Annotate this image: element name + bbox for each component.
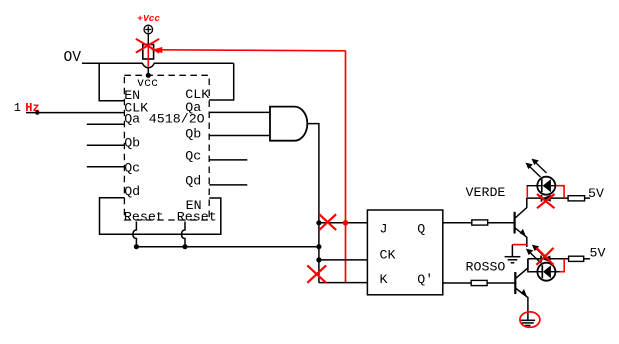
transistor Q1 (upper NPN) (515, 198, 527, 247)
junction dot right reset (182, 244, 187, 249)
wire to CK pin (319, 259, 368, 261)
svg-text:1: 1 (14, 101, 21, 115)
resistor R3 (base, lower) (471, 280, 487, 285)
wire emitter to ground (upper) (526, 245, 528, 247)
wire resistor to 5V (585, 197, 590, 199)
red junction dot Vcc to J (343, 220, 349, 226)
LED D1 (VERDE) (537, 177, 555, 195)
AND gate U2 (270, 107, 307, 141)
red wire emitter to ground (512, 244, 526, 246)
junction dot on vcc pin (146, 73, 151, 78)
diode D4 on collector wire (crossed out) (541, 256, 550, 263)
wire 1Hz input to CLK (26, 112, 124, 114)
wire Q' output to base resistor R3 (443, 282, 516, 284)
resistor R4 (lower collector to 5V) (569, 256, 584, 261)
junction dot on 1Hz wire (35, 110, 39, 114)
svg-text:ROSSO: ROSSO (466, 260, 506, 275)
stub Qd (right) (209, 184, 247, 186)
svg-text:Qb: Qb (124, 135, 140, 150)
diode D3 on collector wire (crossed out) (542, 195, 551, 202)
stub Qc (left) (87, 166, 125, 168)
junction dot CK (316, 257, 321, 262)
svg-text:Q': Q' (417, 272, 433, 287)
ground (lower emitter) (521, 320, 535, 325)
wire 0V rail drop to CLK pin (right) (209, 63, 234, 100)
svg-text:Qa: Qa (185, 100, 201, 115)
red circle annotation around ground (520, 312, 540, 327)
LED D1 emission arrows (526, 159, 547, 177)
wire AND output down to JK inputs (307, 124, 319, 283)
red arrow line to the right (to Vcc net) (151, 47, 346, 53)
LED branch wires (lower) (528, 259, 564, 272)
transistor Q2 (lower NPN) (515, 259, 528, 321)
wire right Reset drop with hop (182, 222, 186, 247)
svg-text:CK: CK (380, 247, 396, 262)
junction dot reset rail (316, 244, 321, 249)
power supply terminal circle (144, 25, 153, 34)
svg-text:Qb: Qb (185, 127, 201, 142)
LED D2 (ROSSO) (537, 263, 555, 281)
wire to K pin (319, 282, 368, 284)
svg-text:Reset: Reset (124, 209, 164, 224)
wire Qd(left) to bottom loop (100, 198, 221, 234)
svg-text:Qa: Qa (124, 112, 140, 127)
red cross-out X over crossed diode (upper) (537, 194, 555, 208)
wire resistor to 5V (lower) (584, 258, 590, 260)
red cross-out X near K (307, 265, 326, 282)
0V rail wire with hop over fuse wire (82, 63, 234, 67)
svg-text:Q: Q (417, 221, 425, 236)
red cross-out X near J (319, 214, 336, 230)
svg-text:+Vcc: +Vcc (137, 13, 160, 24)
wire Qa to AND input (209, 111, 270, 113)
wire 0V rail drop to EN pin (left) (99, 63, 124, 100)
svg-text:VERDE: VERDE (466, 185, 506, 200)
svg-text:K: K (380, 272, 388, 287)
wire left Reset drop with hop (133, 222, 137, 247)
stub Qb (left) (87, 144, 125, 146)
wire collector rail (upper LED row) (527, 197, 568, 199)
svg-text:Qd: Qd (124, 184, 140, 199)
resistor R1 (base, upper) (472, 220, 488, 225)
wire Q output to base resistor R1 (443, 222, 515, 224)
red cross-out X over fuse (136, 39, 159, 53)
svg-text:OV: OV (64, 50, 82, 66)
wire hop bottom to IC vcc pin (147, 68, 149, 76)
wire to J pin (319, 222, 368, 224)
fuse F1 (vertical rectangle) (143, 45, 154, 60)
red LED branch wires (upper) (527, 186, 565, 198)
wire Qb to AND input (209, 135, 270, 137)
JK flip-flop U3 box (367, 210, 442, 295)
svg-text:Qd: Qd (185, 174, 201, 189)
stub Qa (left) (87, 123, 125, 125)
reset rail wire to JK column (136, 246, 319, 248)
svg-text:5V: 5V (588, 186, 604, 201)
wire from terminal to fuse (147, 34, 149, 45)
red wire down through fuse to 0V rail (147, 45, 149, 67)
red vertical Vcc net wire down to JK inputs (345, 51, 347, 284)
svg-text:J: J (380, 221, 388, 236)
svg-text:5V: 5V (590, 245, 606, 260)
junction dot left reset (134, 244, 139, 249)
wire collector rail (lower LED row) (528, 258, 569, 260)
svg-text:Qc: Qc (124, 161, 140, 176)
LED D2 emission arrows (526, 245, 547, 263)
resistor R2 (upper collector to 5V) (568, 196, 585, 201)
svg-text:Reset: Reset (177, 209, 217, 224)
IC U1 4518/20 dashed outline (124, 75, 209, 220)
svg-text:Qc: Qc (185, 149, 201, 164)
junction dot J (316, 220, 321, 225)
red cross-out X over lower LED wire (537, 248, 554, 265)
stub Qc (right) (209, 159, 247, 161)
ground (upper emitter) (505, 245, 521, 263)
svg-text:vcc: vcc (137, 76, 158, 90)
